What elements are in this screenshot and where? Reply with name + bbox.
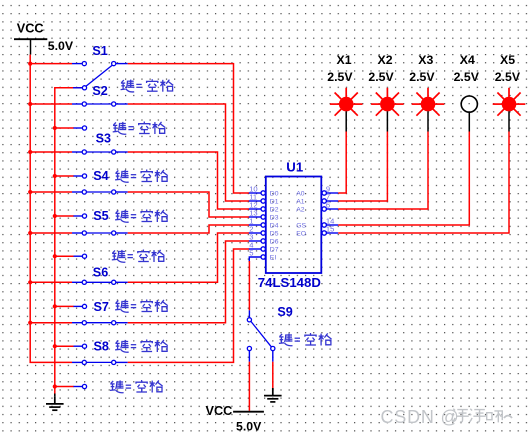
svg-text:A1: A1	[296, 198, 305, 205]
svg-text:S1: S1	[92, 44, 107, 58]
switch S9	[247, 310, 275, 361]
junction on ground bus at S8 stub	[53, 384, 57, 388]
wire S9 to ground	[272, 362, 274, 388]
svg-text:S3: S3	[96, 132, 111, 146]
pin 7 A1 right stub	[322, 199, 338, 203]
pin 10 D0 left stub	[249, 191, 266, 195]
junction on VCC bus at S5	[28, 231, 32, 235]
switch S8	[72, 360, 128, 388]
svg-text:D1: D1	[270, 198, 279, 205]
wire stub S2 to ground bus	[55, 127, 74, 129]
wire S4 output to U1 pin	[128, 192, 250, 217]
junction on VCC bus at S1	[28, 62, 32, 66]
svg-text:X2: X2	[378, 53, 393, 67]
lamp X1	[330, 88, 363, 132]
svg-text:CSDN @: CSDN @	[381, 407, 460, 427]
watermark	[381, 407, 513, 427]
junction on VCC bus at S3	[28, 150, 32, 154]
wire VCC feed S1	[30, 63, 72, 65]
IC U1 74LS148D body	[266, 177, 322, 274]
svg-text:S6: S6	[93, 266, 108, 280]
pin 4 D7 left stub	[249, 247, 266, 251]
wire S2 output to U1 pin	[128, 104, 250, 201]
wire stub S4 to ground bus	[55, 215, 74, 217]
wire S1 output to U1 pin	[128, 64, 250, 193]
switch S3	[72, 150, 128, 178]
pin 5 EI left stub	[249, 255, 265, 262]
wire X5 to U1	[338, 132, 509, 234]
label key=space for S9	[279, 333, 332, 346]
label key=space for S6	[115, 300, 168, 313]
label key=space for S5	[112, 250, 165, 263]
pin 9 A0 right stub	[322, 191, 338, 195]
wire S6 output to U1 pin	[128, 233, 250, 282]
wire VCC feed S2	[30, 103, 72, 105]
junction on ground bus at S4 stub	[53, 214, 57, 218]
switch S2	[72, 102, 128, 130]
wire stub S5 to ground bus	[55, 255, 74, 257]
wire VCC bus vertical	[30, 55, 72, 363]
svg-text:2.5V: 2.5V	[409, 70, 435, 84]
label key=space for S4	[115, 210, 168, 223]
svg-text:VCC: VCC	[206, 404, 233, 418]
wire stub S7 to ground bus	[55, 345, 74, 347]
svg-text:15: 15	[326, 225, 334, 234]
wire X4 to U1	[338, 132, 469, 226]
label key=space for S7	[115, 340, 168, 353]
junction on ground bus at S3 stub	[53, 174, 57, 178]
svg-text:2.5V: 2.5V	[327, 70, 353, 84]
wire S5 output to U1 pin	[128, 225, 250, 233]
svg-text:D2: D2	[270, 206, 279, 213]
lamp X3	[412, 88, 445, 132]
wire VCC feed S6	[30, 281, 72, 283]
label key=space for S2	[113, 122, 166, 135]
svg-text:74LS148D: 74LS148D	[258, 275, 321, 290]
svg-text:U1: U1	[286, 159, 303, 174]
junction on ground bus at S7 stub	[53, 344, 57, 348]
pin 14 GS right stub	[322, 223, 338, 227]
wire VCC feed S7	[30, 322, 72, 324]
wire X2 to U1	[338, 132, 387, 202]
switch S5	[72, 231, 128, 258]
svg-text:S2: S2	[92, 84, 107, 98]
label key=space for S8	[110, 380, 163, 393]
svg-text:2.5V: 2.5V	[368, 70, 394, 84]
svg-text:X3: X3	[418, 53, 433, 67]
svg-text:5.0V: 5.0V	[236, 420, 262, 434]
wire stub S3 to ground bus	[55, 175, 74, 177]
wire VCC feed S3	[30, 151, 72, 153]
svg-text:EI: EI	[270, 254, 277, 261]
wire S8 output to U1 pin	[128, 249, 250, 362]
junction on ground bus at S6 stub	[53, 304, 57, 308]
svg-text:D4: D4	[270, 222, 279, 229]
svg-text:X4: X4	[460, 53, 475, 67]
svg-text:D5: D5	[270, 230, 279, 237]
junction on VCC bus at S7	[28, 321, 32, 325]
svg-text:GS: GS	[296, 222, 306, 229]
power VCC top	[14, 21, 47, 54]
pin 11 D1 left stub	[249, 199, 266, 203]
svg-text:S5: S5	[93, 209, 108, 223]
svg-text:D0: D0	[270, 190, 279, 197]
pin 6 A2 right stub	[322, 207, 338, 211]
junction on ground bus at S2 stub	[53, 126, 57, 130]
junction on ground bus at S5 stub	[53, 254, 57, 258]
switch S7	[72, 321, 128, 349]
lamp X2	[371, 88, 404, 132]
svg-text:5: 5	[249, 249, 253, 258]
svg-text:S4: S4	[93, 169, 108, 183]
wire S3 output to U1 pin	[128, 152, 250, 209]
svg-text:X1: X1	[337, 53, 352, 67]
wire ground bus vertical	[55, 88, 82, 396]
power VCC bottom	[206, 404, 264, 418]
wire stub S8 to ground bus	[55, 386, 74, 388]
wire S9 to VCC bottom	[248, 362, 250, 411]
svg-text:D3: D3	[270, 214, 279, 221]
svg-text:2.5V: 2.5V	[454, 70, 480, 84]
wire EI to S9	[248, 261, 250, 310]
junction on VCC bus at S6	[28, 280, 32, 284]
pin 1 D4 left stub	[249, 223, 266, 227]
svg-text:S7: S7	[94, 300, 109, 314]
svg-text:2.5V: 2.5V	[495, 70, 521, 84]
pin 12 D2 left stub	[249, 207, 266, 211]
svg-text:S9: S9	[277, 305, 292, 319]
wire stub S6 to ground bus	[55, 305, 74, 307]
lamp X5	[493, 88, 526, 132]
svg-text:D6: D6	[270, 238, 279, 245]
ground left	[46, 394, 64, 411]
svg-text:S8: S8	[94, 339, 109, 353]
pin 2 D5 left stub	[249, 231, 266, 235]
wire VCC feed S5	[30, 232, 72, 234]
switch S4	[72, 190, 128, 218]
pin 3 D6 left stub	[249, 239, 266, 243]
svg-text:6: 6	[326, 201, 330, 210]
wire X1 to U1	[338, 132, 346, 194]
label key=space for S3	[115, 170, 168, 183]
wire VCC feed S4	[30, 191, 72, 193]
svg-text:5.0V: 5.0V	[48, 39, 74, 53]
switch S1	[72, 62, 128, 90]
junction on VCC bus at S4	[28, 190, 32, 194]
ground S9	[264, 388, 282, 402]
junction on VCC bus at S2	[28, 102, 32, 106]
svg-text:A2: A2	[296, 206, 305, 213]
label key=space for S1	[121, 79, 174, 92]
lamp X4	[461, 96, 477, 132]
svg-text:EO: EO	[296, 230, 306, 237]
svg-text:X5: X5	[500, 53, 515, 67]
pin 13 D3 left stub	[249, 215, 266, 219]
svg-text:A0: A0	[296, 190, 305, 197]
wire S7 output to U1 pin	[128, 241, 250, 323]
wire X3 to U1	[338, 132, 428, 210]
pin 15 EO right stub	[322, 231, 338, 235]
svg-text:D7: D7	[270, 246, 279, 253]
switch S6	[72, 280, 128, 308]
svg-text:VCC: VCC	[17, 21, 44, 35]
